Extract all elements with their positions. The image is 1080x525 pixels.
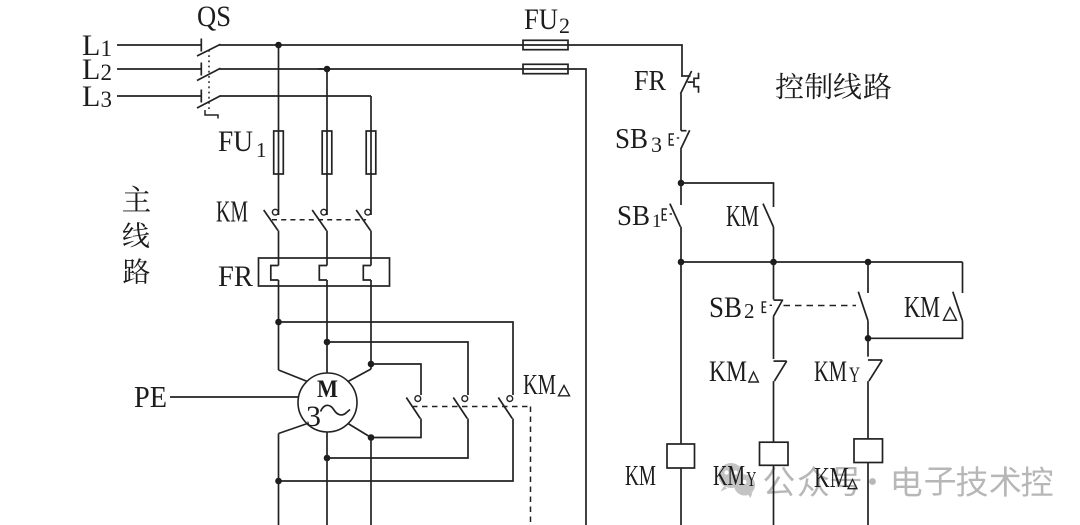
wire FR1 down to node <box>278 280 280 370</box>
svg-text:KM: KM <box>709 355 747 388</box>
svg-text:3: 3 <box>306 400 321 433</box>
wire L1 QS to FU2 <box>220 44 569 46</box>
motor stub lower-left to line1 <box>279 424 308 434</box>
wire KM3 to FR <box>370 231 372 266</box>
delta loop wire from line3 to contact A <box>371 364 421 395</box>
thermal relay FR box <box>259 258 390 286</box>
wire FU1a to KM <box>278 174 280 215</box>
delta loop wire from line1 to contact C <box>279 322 514 395</box>
svg-text:KM: KM <box>713 461 745 492</box>
svg-text:SB: SB <box>615 123 648 155</box>
svg-text:KM: KM <box>216 194 248 229</box>
label L2 <box>82 53 112 86</box>
fuse FU2 b <box>523 64 568 73</box>
wire PE to motor <box>170 396 299 398</box>
SB2 linkage dashed <box>784 305 857 307</box>
svg-text:2: 2 <box>101 60 113 85</box>
wire rail to KM coil <box>680 262 682 444</box>
pushbutton SB2 NC <box>762 300 783 317</box>
svg-text:Y: Y <box>746 467 756 491</box>
contactor KM main contact 3 <box>356 209 370 230</box>
contact KM-delta NO self-lock branch <box>868 262 963 338</box>
label L1 <box>82 29 112 62</box>
wire FR2 down to node <box>326 280 328 373</box>
delta return wire contact B to line2 <box>327 419 468 459</box>
wire line2 down through FU1 <box>326 69 328 174</box>
svg-text:FU: FU <box>218 125 253 158</box>
junction dot L1 <box>275 42 282 49</box>
thermal contact FR NC <box>681 71 699 94</box>
switch QS pole 1 <box>197 39 221 57</box>
wire KM1 to FR <box>278 231 280 266</box>
watermark text 公众号·电子技术控 <box>764 466 1052 497</box>
coil KM <box>667 444 695 468</box>
wire linked contact to node B <box>867 321 869 339</box>
svg-text:1: 1 <box>652 211 662 232</box>
wire KMY coil to bottom <box>773 465 775 525</box>
contactor KM-delta main contact A <box>406 396 420 419</box>
junction dot node A <box>678 180 685 187</box>
delta return wire contact C to line1 <box>279 419 514 482</box>
svg-text:M: M <box>317 376 338 403</box>
label FU2 <box>524 3 570 38</box>
wire FU1c to KM <box>370 174 372 215</box>
motor M circle <box>298 373 357 432</box>
wire L2 QS to FU2 <box>220 68 569 70</box>
junction dot node B <box>865 335 872 342</box>
label 主线路 <box>123 186 150 284</box>
svg-text:1: 1 <box>256 138 267 162</box>
wire line2 motor to bottom <box>326 432 328 525</box>
junction dot line1 lower <box>275 478 282 485</box>
svg-text:FR: FR <box>218 260 253 293</box>
label SB1 <box>617 200 662 232</box>
wire L3 QS to line3 corner <box>220 95 372 97</box>
KM-delta linkage dashed <box>412 407 531 525</box>
contact KMY NC interlock <box>868 360 882 381</box>
fuse FU2 a <box>523 40 568 49</box>
KM linkage dashed <box>272 219 366 221</box>
junction dot line3 lower <box>368 434 375 441</box>
FR heater 3 <box>363 266 371 281</box>
svg-text:Y: Y <box>849 362 860 387</box>
svg-text:KM: KM <box>523 369 556 401</box>
label KM-delta coil <box>814 463 857 494</box>
junction dot line1 upper <box>275 319 282 326</box>
svg-text:SB: SB <box>709 291 742 324</box>
contact SB2-linked NO <box>858 292 868 321</box>
svg-text:L: L <box>82 80 100 113</box>
wire node B to KMY NC <box>867 338 869 356</box>
svg-text:1: 1 <box>101 36 113 61</box>
delta loop wire from line2 to contact B <box>327 342 468 395</box>
fuse FU1 b <box>322 131 332 174</box>
contactor KM main contact 2 <box>312 209 326 230</box>
wire rail to SB2 <box>773 262 775 300</box>
svg-text:2: 2 <box>744 299 755 323</box>
FR heater 1 <box>271 266 279 281</box>
coil KM-delta <box>854 439 883 463</box>
FR heater 2 <box>319 266 327 281</box>
delta return wire contact A to line3 <box>371 419 421 438</box>
wire SB2 to KM-delta NC <box>773 317 775 359</box>
label KM-delta self-lock <box>904 289 957 324</box>
label KM-delta NC interlock <box>709 355 758 388</box>
label L3 <box>82 80 112 113</box>
motor stub upper-right from line3 <box>348 369 371 382</box>
wire SB3 to node A <box>680 149 682 183</box>
label KMY coil <box>713 461 756 492</box>
wire line3 down through FU1 <box>370 96 372 174</box>
wire node A to KM branch <box>681 183 774 207</box>
wire line3 node to bottom <box>370 438 372 525</box>
svg-text:KM: KM <box>814 355 847 388</box>
wire KM-delta NC to KMY coil <box>773 381 775 442</box>
label FU1 <box>218 125 267 162</box>
wire KM aux to rail <box>773 227 775 262</box>
junction dot rail right <box>865 259 872 266</box>
contactor KM-delta main contact C <box>498 396 512 419</box>
wire FR to SB3 <box>680 94 682 131</box>
junction dot rail left <box>678 259 685 266</box>
svg-text:FR: FR <box>634 66 666 97</box>
wire line1 down through FU1 <box>278 45 280 174</box>
wire rail to SB2 linked contact <box>867 262 869 293</box>
motor stub upper-left from line1 <box>279 370 308 382</box>
svg-text:PE: PE <box>134 379 167 414</box>
svg-text:FU: FU <box>524 3 558 36</box>
motor tilde wave <box>321 405 351 415</box>
wire L1 to QS <box>117 44 201 46</box>
wire node A to SB1 <box>680 183 682 205</box>
QS handle <box>205 110 218 119</box>
watermark logo <box>719 463 756 498</box>
pushbutton SB1 NO <box>662 204 680 227</box>
svg-text:KM: KM <box>814 463 849 494</box>
wire L3 to QS <box>117 95 201 97</box>
wire KMY NC to KM-delta coil <box>867 381 869 439</box>
wire FR3 down to node <box>370 280 372 369</box>
wire KM-delta coil to bottom <box>867 463 869 525</box>
junction dot line2 lower <box>324 455 331 462</box>
switch QS pole 2 <box>197 63 221 81</box>
pushbutton SB3 NC <box>669 130 689 149</box>
QS linkage dashed <box>208 50 210 110</box>
label SB2 <box>709 291 755 324</box>
wire L2 to QS <box>117 68 201 70</box>
contact KM NO self-holding <box>763 204 774 227</box>
junction dot line2 upper <box>324 339 331 346</box>
wire SB1 to rail <box>680 227 682 262</box>
label KM-delta main <box>523 369 570 401</box>
wire FU2a to corner <box>568 45 682 72</box>
svg-text:3: 3 <box>651 132 662 157</box>
svg-text:KM: KM <box>904 289 940 324</box>
svg-text:SB: SB <box>617 200 650 232</box>
wire KM coil to bottom <box>680 468 682 525</box>
junction dot L2 <box>318 66 330 73</box>
label SB3 <box>615 123 662 157</box>
fuse FU1 c <box>366 131 376 174</box>
svg-text:2: 2 <box>559 13 570 38</box>
coil KMY <box>760 442 789 465</box>
motor stub lower-right to line3 <box>348 424 371 438</box>
junction dot line3 upper <box>368 361 375 368</box>
svg-text:KM: KM <box>726 198 759 233</box>
svg-text:3: 3 <box>101 87 113 112</box>
wire line1 motor to bottom <box>278 434 280 525</box>
junction dot rail mid <box>770 259 777 266</box>
wire FU1b to KM <box>326 174 328 215</box>
control rail wire <box>681 261 963 263</box>
wire FU2b to control rail <box>568 69 586 525</box>
fuse FU1 a <box>274 131 284 174</box>
contact KM-delta NC interlock <box>774 361 787 381</box>
label 控制线路 <box>776 73 891 100</box>
contactor KM-delta main contact B <box>453 396 467 419</box>
wire KM2 to FR <box>326 231 328 266</box>
svg-text:KM: KM <box>625 461 656 492</box>
contactor KM main contact 1 <box>264 209 278 230</box>
switch QS pole 3 <box>197 90 221 109</box>
label KMY NC interlock <box>814 355 860 388</box>
svg-text:QS: QS <box>197 0 231 33</box>
